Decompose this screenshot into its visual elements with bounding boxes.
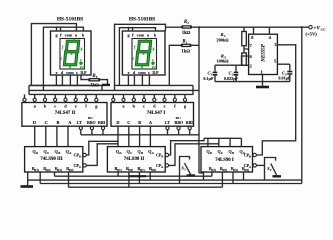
capacitor C3 0.01uF — [278, 64, 292, 81]
wire +5V down right side — [301, 27, 303, 183]
svg-text:D: D — [33, 120, 36, 125]
digit 8 (DS2) — [136, 41, 150, 65]
op-amp U1 timer NE555P — [249, 34, 278, 74]
pin bubbles 74LS47 II top — [23, 98, 98, 101]
svg-text:B: B — [138, 120, 141, 125]
svg-text:B: B — [58, 151, 60, 155]
svg-text:g: g — [70, 51, 73, 55]
wire D C B A verticals II to 90-III — [35, 126, 68, 146]
bus bottom A — [28, 179, 302, 181]
svg-text:CC: CC — [321, 27, 326, 31]
terminal +Vcc — [309, 26, 312, 29]
wire pin4 to rail — [268, 27, 270, 34]
switch S1 — [180, 157, 196, 184]
pin bubbles 74LS47 I top — [112, 98, 187, 101]
svg-text:C: C — [130, 151, 132, 155]
decimal point DS1 — [79, 62, 82, 65]
counter U6 74LS90 I — [201, 147, 253, 172]
svg-text:com: com — [138, 70, 146, 75]
pin bubble CPA III — [83, 164, 86, 167]
svg-text:D.P: D.P — [79, 65, 85, 69]
ground (555) — [256, 86, 269, 89]
wire pin3 output — [256, 45, 295, 155]
bus lines under display1 — [29, 84, 102, 86]
svg-text:g: g — [142, 51, 145, 55]
bus bottom D — [69, 186, 223, 188]
bus bottom B — [40, 183, 302, 185]
svg-text:74LS90 II: 74LS90 II — [124, 157, 145, 162]
svg-text:D.P: D.P — [80, 71, 87, 75]
wire CPA III — [86, 144, 118, 166]
wire stubs bus to 90-I top — [208, 138, 242, 146]
wire thick joint near R5 — [102, 84, 110, 86]
svg-text:2: 2 — [186, 21, 189, 25]
svg-text:C: C — [221, 151, 223, 155]
svg-text:1kΩ: 1kΩ — [181, 49, 190, 54]
svg-text:a: a — [145, 37, 147, 41]
pin bubbles 74LS47 II bottom (LT RBO RBI) — [79, 127, 104, 130]
wire stubs bus to 74LS47 II bubbles — [25, 94, 97, 98]
wire LT/RBO/RBI bus to trunk — [81, 134, 199, 136]
svg-text:(+5V): (+5V) — [306, 32, 318, 37]
pin bubble CPB I-90 — [253, 153, 256, 156]
wire DP1 to R5 — [81, 75, 88, 80]
svg-text:74LS47 II: 74LS47 II — [55, 111, 76, 116]
svg-text:9(2): 9(2) — [69, 168, 74, 172]
svg-text:e: e — [164, 104, 166, 109]
svg-text:0(2): 0(2) — [222, 168, 227, 172]
resistor R1 1kOhm — [181, 40, 192, 55]
wire display2 pin f stub — [132, 28, 134, 31]
svg-text:B: B — [141, 151, 143, 155]
svg-text:B: B — [232, 151, 234, 155]
wire display1 pin g stub — [56, 27, 58, 31]
resistor R3 100kOhm — [216, 53, 246, 65]
wire stubs bus to 74LS47 I bubbles — [113, 94, 185, 98]
wire 90-III bottom stubs — [28, 172, 69, 187]
counter U5 74LS90 II — [107, 147, 165, 172]
svg-text:74LS47 I: 74LS47 I — [147, 111, 166, 116]
svg-text:B: B — [57, 120, 60, 125]
svg-text:a: a — [73, 37, 75, 41]
pin bubble CPA I-90 — [253, 164, 256, 167]
svg-text:d: d — [69, 65, 71, 69]
decimal point DS2 — [151, 62, 154, 65]
wire trunk right of displays — [198, 27, 200, 173]
svg-text:c: c — [54, 104, 56, 109]
svg-text:b: b — [81, 48, 83, 52]
svg-text:HS-5101BS: HS-5101BS — [129, 16, 155, 22]
svg-text:com: com — [65, 32, 73, 37]
svg-text:RBO: RBO — [174, 120, 183, 125]
svg-text:com: com — [66, 70, 74, 75]
wire CPA I-90 stub to S2 — [256, 164, 264, 166]
pin bubble CPA II-90 — [165, 164, 168, 167]
bus line under display2 — [115, 84, 194, 86]
wire CPA II-90 riser — [169, 144, 219, 166]
svg-text:c: c — [143, 104, 145, 109]
wire bus over 90-I — [204, 137, 241, 139]
wire pin8 to rail — [253, 27, 255, 34]
svg-text:BI /: BI / — [176, 116, 181, 120]
wire 90-I bottom stubs — [212, 172, 244, 187]
svg-text:HS-5101BS: HS-5101BS — [57, 16, 83, 22]
display DS2 HS-5101BS — [122, 16, 165, 75]
display DS1 HS-5101BS — [51, 16, 92, 75]
resistor R5 1kOhm — [88, 74, 101, 89]
digit 8 (DS1) — [64, 41, 78, 65]
wire display2 pin g stub — [128, 28, 130, 31]
wire R1 right to trunk — [192, 44, 199, 46]
svg-text:e: e — [128, 70, 130, 75]
power rail +5V — [192, 26, 308, 28]
svg-text:100kΩ: 100kΩ — [216, 59, 229, 64]
wire stubs LT RBO RBI II to bus — [81, 130, 103, 135]
svg-text:RBI: RBI — [186, 120, 194, 125]
wire stubs LT RBO RBI I to bus — [168, 130, 190, 135]
wire R4-R3 junction to pin7 — [244, 46, 249, 53]
svg-text:B: B — [79, 154, 81, 158]
resistor R2 1kOhm — [181, 20, 192, 36]
svg-text:C: C — [45, 120, 48, 125]
wire pin6-pin2 loop — [242, 56, 249, 65]
wire thick joint bus C — [129, 175, 146, 177]
wire cap top bus to pin2 node — [215, 64, 242, 66]
switch S2 — [265, 158, 282, 181]
svg-text:9(1): 9(1) — [57, 168, 62, 172]
svg-text:BI /: BI / — [88, 116, 93, 120]
pin bubbles 74LS47 I bottom (LT RBO RBI) — [166, 127, 191, 130]
svg-text:e: e — [56, 70, 58, 75]
wire display1 pin a loop — [31, 24, 76, 86]
svg-text:e: e — [75, 104, 77, 109]
svg-text:C: C — [47, 151, 49, 155]
wire 90-II bottom stubs — [118, 172, 150, 187]
bus bottom C — [55, 175, 212, 177]
svg-text:B: B — [161, 154, 163, 158]
wire R5 right — [101, 80, 108, 85]
svg-text:0(1): 0(1) — [211, 168, 216, 172]
svg-text:D.P: D.P — [152, 71, 159, 75]
svg-text:0.1μF: 0.1μF — [203, 76, 214, 81]
svg-text:0(2): 0(2) — [128, 168, 133, 172]
svg-text:C: C — [127, 120, 130, 125]
wire CPB III to QD II-90 — [86, 141, 117, 155]
svg-text:0(1): 0(1) — [117, 168, 122, 172]
svg-text:9(2): 9(2) — [244, 168, 249, 172]
svg-text:RBI: RBI — [98, 120, 106, 125]
ground (reset bus) — [21, 185, 34, 188]
svg-text:RBO: RBO — [87, 120, 96, 125]
svg-text:74LS90 I: 74LS90 I — [215, 158, 234, 163]
svg-text:LT: LT — [77, 120, 82, 125]
wire D C B A verticals I to 90-II — [118, 126, 150, 146]
wire pin1 down — [262, 75, 264, 86]
wire display2 pin b loop — [119, 28, 155, 86]
svg-text:D.P: D.P — [151, 65, 157, 69]
decoder U3 74LS47 I — [111, 103, 194, 127]
svg-text:LT: LT — [165, 120, 170, 125]
svg-text:74LS90 III: 74LS90 III — [40, 157, 62, 162]
pin bubble CPB III — [83, 153, 86, 156]
resistor R4 200kOhm — [216, 27, 246, 46]
capacitor C1 0.1uF — [203, 65, 217, 81]
svg-text:0(2): 0(2) — [46, 168, 51, 172]
svg-text:b: b — [153, 48, 155, 52]
capacitor C2 0.022uF — [224, 65, 239, 81]
wire display2 pin a loop — [115, 24, 166, 90]
svg-text:c: c — [148, 70, 150, 75]
svg-text:B: B — [249, 154, 251, 158]
counter U4 74LS90 III — [25, 147, 83, 172]
svg-text:D: D — [116, 120, 119, 125]
wire CPB II-90 riser — [169, 138, 204, 155]
svg-text:d: d — [141, 65, 143, 69]
wire display2 com to R2 — [166, 26, 182, 28]
wire display1 pin b loop — [43, 27, 83, 90]
wire R1 left to display2 com — [169, 45, 180, 85]
svg-text:NE555P: NE555P — [262, 43, 267, 62]
wire display2 bottom pins — [128, 75, 149, 85]
svg-text:c: c — [76, 70, 78, 75]
svg-text:9(2): 9(2) — [151, 168, 156, 172]
svg-text:9(1): 9(1) — [233, 168, 238, 172]
svg-text:1kΩ: 1kΩ — [182, 31, 191, 36]
pin bubble CPB II-90 — [165, 153, 168, 156]
wire display1 bottom pins — [56, 75, 77, 85]
svg-text:9(1): 9(1) — [140, 168, 145, 172]
svg-text:com: com — [137, 32, 145, 37]
decoder U2 74LS47 II — [22, 103, 107, 127]
svg-text:200kΩ: 200kΩ — [216, 38, 229, 43]
svg-text:0.01μF: 0.01μF — [278, 76, 291, 81]
wire ground bus under 555 — [215, 81, 290, 83]
svg-text:0(1): 0(1) — [34, 168, 39, 172]
svg-text:0.022μF: 0.022μF — [224, 76, 239, 81]
wire display1 pin f stub — [60, 27, 62, 31]
wire pin5 to C3 — [277, 63, 289, 65]
